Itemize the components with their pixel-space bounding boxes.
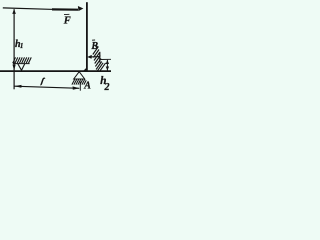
dimension h1 bottom arrowhead bbox=[13, 65, 16, 71]
label F overbar bbox=[64, 13, 69, 15]
dimension l right extension line bbox=[79, 82, 81, 91]
support A pin triangle bbox=[74, 72, 85, 79]
dimension h2 top arrowhead bbox=[106, 60, 109, 64]
dimension h1 top arrowhead bbox=[12, 9, 16, 14]
force B arrow shaft bbox=[91, 56, 100, 58]
dimension l left arrowhead bbox=[14, 85, 21, 88]
force B arrow head bbox=[87, 55, 92, 59]
dimension l line bbox=[14, 86, 79, 88]
left support hatching bbox=[13, 57, 32, 63]
label B overbar bbox=[92, 39, 95, 41]
support A hatching bbox=[72, 79, 86, 84]
corner wedge at rod base bbox=[84, 68, 87, 71]
left support pin triangle bbox=[18, 64, 25, 70]
force F arrow shaft (bold) bbox=[52, 8, 78, 11]
dimension h2 line bbox=[106, 60, 108, 71]
left support base line bbox=[13, 63, 30, 65]
dimension h2 extension line bbox=[100, 58, 111, 60]
svg-text:F: F bbox=[63, 16, 71, 27]
label l bbox=[40, 78, 44, 84]
dimension h2 bottom arrowhead bbox=[106, 67, 109, 71]
top bar bbox=[3, 8, 78, 10]
svg-text:A: A bbox=[83, 81, 91, 92]
svg-text:2: 2 bbox=[104, 82, 110, 93]
svg-text:1: 1 bbox=[20, 42, 24, 50]
dimension h1 line bbox=[13, 9, 15, 89]
force F arrow head bbox=[78, 6, 84, 11]
column (right vertical rod) bbox=[86, 2, 88, 71]
beam (ground line) bbox=[0, 70, 111, 72]
wall face line at B bbox=[99, 52, 101, 63]
dimension l right arrowhead bbox=[73, 86, 80, 89]
wall hatching at B bbox=[93, 44, 106, 71]
svg-text:B: B bbox=[90, 41, 98, 52]
